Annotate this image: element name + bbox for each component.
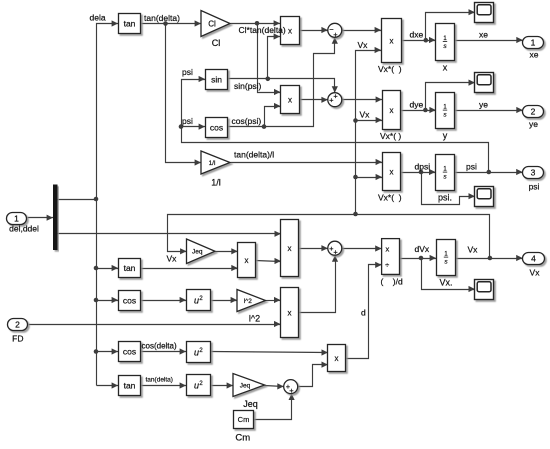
- gain Jeq mid: [187, 239, 216, 264]
- output port 3 psi: [523, 167, 544, 192]
- svg-text:sin(psi): sin(psi): [234, 81, 262, 91]
- wire dye to scope2: [426, 80, 475, 111]
- wire sum4 to product H: [298, 362, 328, 387]
- product A (Cl*tan x): [281, 17, 300, 45]
- sum4 (plus plus): [284, 380, 298, 396]
- integrator x: [436, 24, 455, 73]
- svg-text:tan: tan: [124, 19, 136, 29]
- svg-text:ye: ye: [529, 119, 538, 129]
- svg-text:Jeq: Jeq: [243, 399, 258, 409]
- wire tan(delta): [141, 20, 202, 26]
- svg-text:tan: tan: [124, 263, 136, 273]
- svg-text:y: y: [443, 131, 448, 141]
- wire net dVx: [400, 255, 437, 261]
- svg-text:ye: ye: [479, 100, 488, 110]
- svg-text:3: 3: [531, 168, 536, 178]
- trigonometric function sin: [206, 70, 228, 90]
- product J (Jeq tan): [238, 243, 256, 278]
- svg-text:cos: cos: [210, 123, 223, 133]
- wire sin(psi) branch to product A: [268, 33, 281, 78]
- svg-text:x: x: [288, 244, 292, 253]
- svg-text:x: x: [390, 106, 394, 115]
- svg-text:del,ddel: del,ddel: [9, 224, 39, 234]
- scope Vx: [475, 280, 494, 300]
- input port 2 FD: [8, 319, 28, 344]
- svg-text:u: u: [194, 296, 199, 306]
- output port 4 Vx: [523, 253, 545, 278]
- gain Cl: [201, 11, 230, 49]
- wire input1 to demux: [28, 215, 54, 221]
- svg-text:l^2: l^2: [249, 314, 260, 324]
- gain 1/l: [201, 151, 230, 188]
- wire u2a to l2: [211, 297, 238, 303]
- gain l^2: [237, 290, 266, 324]
- scope xe: [475, 3, 494, 23]
- svg-text:Cl: Cl: [212, 38, 221, 48]
- input port 1 del,ddel: [7, 213, 39, 234]
- trigonometric function cos2: [119, 342, 141, 362]
- wire Vx to product D: [356, 117, 383, 123]
- wire Jeq to product J: [216, 248, 238, 254]
- svg-text:psi: psi: [182, 67, 193, 77]
- wire dpsi to scope3: [422, 173, 475, 205]
- wire net dpsi: [400, 169, 436, 175]
- constant Cm: [234, 411, 254, 429]
- svg-text:x: x: [288, 26, 292, 35]
- svg-text:Vx*( ): Vx*( ): [378, 193, 402, 203]
- svg-text:dela: dela: [90, 13, 106, 23]
- svg-text:cos: cos: [123, 296, 136, 306]
- wire dVx to scope4: [422, 259, 475, 293]
- svg-text:+: +: [333, 91, 338, 100]
- integrator y: [436, 93, 455, 141]
- svg-text:FD: FD: [12, 334, 23, 344]
- svg-text:+: +: [289, 386, 294, 395]
- wire Jeq2 to sum4: [265, 383, 284, 389]
- demux bar: [53, 185, 58, 251]
- svg-text:Vx: Vx: [468, 245, 479, 255]
- svg-text:x: x: [443, 63, 448, 73]
- svg-text:tan(delta)/l: tan(delta)/l: [234, 150, 274, 160]
- wire tan(delta)/l: [231, 159, 383, 165]
- svg-text:cos(psi): cos(psi): [232, 116, 262, 126]
- wire cos(delta)^2 to product H: [211, 349, 328, 355]
- wire Cl*tan branch to product B: [258, 24, 281, 96]
- product E Vx*( ) psi: [383, 153, 401, 191]
- svg-text:2: 2: [15, 320, 20, 330]
- svg-text:Vx: Vx: [167, 254, 178, 264]
- wire sum3 to divide: [342, 245, 382, 251]
- svg-text:Vx.: Vx.: [439, 278, 452, 288]
- trigonometric function tan: [119, 14, 141, 34]
- trigonometric function cos1: [119, 291, 141, 311]
- wire cos2 to u2b: [141, 348, 187, 354]
- svg-text:xe: xe: [479, 30, 488, 40]
- svg-text:psi.: psi.: [438, 193, 452, 203]
- gain Jeq2: [233, 374, 265, 410]
- wire net del vertical: [94, 20, 119, 385]
- svg-text:1/l: 1/l: [211, 178, 221, 188]
- integrator psi: [436, 155, 455, 203]
- wire net FD: [29, 321, 281, 327]
- svg-text:+: +: [333, 247, 338, 256]
- wire product A to sum1: [300, 27, 328, 33]
- sum3 (plus plus): [328, 241, 342, 256]
- svg-text:sin: sin: [211, 75, 222, 85]
- svg-text:Vx: Vx: [530, 268, 541, 278]
- svg-text:psi: psi: [466, 162, 477, 172]
- trigonometric function cos: [206, 118, 228, 138]
- svg-text:4: 4: [531, 254, 536, 264]
- svg-text:dpsi: dpsi: [415, 162, 431, 172]
- output port 2 ye: [523, 106, 544, 130]
- svg-text:x: x: [335, 354, 339, 363]
- sum2 (plus plus): [328, 91, 342, 106]
- wire Vx to product E: [356, 174, 383, 180]
- svg-text:tan(delta): tan(delta): [144, 13, 180, 23]
- wire tan2 to u2c: [141, 382, 187, 388]
- svg-text:dxe: dxe: [410, 30, 424, 40]
- svg-text:cos(delta): cos(delta): [142, 342, 177, 351]
- trigonometric function tan2: [119, 376, 141, 396]
- scope ye: [475, 73, 494, 93]
- wire u2c to Jeq2: [211, 382, 234, 388]
- svg-text:x: x: [390, 36, 394, 45]
- svg-text:x: x: [386, 245, 390, 254]
- wire dxe to scope1: [426, 9, 475, 40]
- svg-text:psi: psi: [182, 116, 193, 126]
- wire product J to product F: [256, 258, 281, 264]
- svg-text:tan(delta): tan(delta): [146, 377, 173, 384]
- divide block ( )/d: [382, 239, 400, 275]
- wire tan mid to product J: [141, 265, 238, 271]
- product D Vx*( ) ye: [383, 91, 401, 130]
- svg-text:xe: xe: [530, 50, 539, 60]
- product B (sin cos x): [281, 86, 300, 114]
- svg-text:Cl: Cl: [208, 19, 216, 28]
- svg-text:u: u: [194, 381, 199, 391]
- svg-text:tan: tan: [124, 381, 136, 391]
- svg-text:Vx*( ): Vx*( ): [378, 64, 402, 74]
- svg-text:dye: dye: [410, 100, 424, 110]
- wire net del trunk: [58, 199, 97, 201]
- wire tan(delta) to 1/l: [166, 24, 202, 166]
- wire ye to out2: [455, 107, 523, 113]
- wire psi feedback to cos: [182, 124, 206, 130]
- wire del to tan mid: [97, 265, 119, 271]
- wire sin(psi): [228, 77, 338, 93]
- svg-text:dVx: dVx: [415, 244, 430, 254]
- wire net dxe: [401, 37, 436, 43]
- wire psi to out3: [455, 169, 523, 175]
- wire del to tan2: [97, 382, 119, 388]
- trigonometric function tan mid: [119, 259, 141, 278]
- product G (l^2 FD): [281, 288, 299, 338]
- svg-text:1: 1: [14, 214, 19, 224]
- product H (cos^2 sum4): [328, 345, 346, 372]
- svg-text:l^2: l^2: [244, 298, 252, 305]
- wire Cm to sum4: [253, 394, 295, 420]
- svg-text:x: x: [245, 256, 249, 265]
- svg-text:Cm: Cm: [238, 415, 250, 424]
- product F (ddel): [281, 220, 299, 277]
- wire Cl*tan(delta): [231, 20, 281, 26]
- math function u^2 a: [187, 290, 211, 311]
- integrator Vx: [437, 240, 456, 288]
- wire psi feedback: [179, 76, 489, 173]
- wire net d: [346, 262, 382, 359]
- sum1 (minus plus): [328, 23, 342, 39]
- svg-text:x: x: [390, 167, 394, 176]
- svg-text:Jeq: Jeq: [192, 249, 203, 256]
- svg-text:cos: cos: [123, 347, 136, 357]
- wire cos(psi) branch to product B: [265, 103, 281, 127]
- wire del to cos1: [97, 297, 119, 303]
- wire del to cos2: [97, 348, 119, 354]
- wire net dye: [401, 107, 436, 113]
- svg-text:x: x: [288, 95, 292, 104]
- wire cos(psi): [228, 37, 338, 129]
- scope psi: [475, 187, 494, 207]
- math function u^2 c: [187, 375, 211, 396]
- svg-text:Cm: Cm: [235, 433, 250, 444]
- svg-text:1/l: 1/l: [209, 160, 216, 167]
- product C Vx*( ) xe: [382, 19, 402, 63]
- svg-text:+: +: [333, 30, 338, 39]
- svg-text:Vx*( ): Vx*( ): [380, 131, 401, 141]
- svg-text:2: 2: [531, 107, 536, 117]
- svg-text:1: 1: [531, 38, 536, 48]
- math function u^2 b: [187, 342, 211, 363]
- wire sum2 to product D: [342, 96, 383, 102]
- svg-text:d: d: [361, 308, 366, 318]
- wire Vx feedback: [168, 212, 490, 259]
- svg-text:Vx: Vx: [360, 110, 371, 120]
- wire Vx to out4: [456, 255, 523, 261]
- svg-text:x: x: [288, 308, 292, 317]
- svg-text:Cl*tan(delta): Cl*tan(delta): [239, 25, 286, 35]
- output port 1 xe: [523, 37, 544, 60]
- wire product G to sum3: [299, 255, 339, 312]
- wire product B to sum2: [300, 97, 328, 103]
- wire product F to sum3: [299, 245, 328, 251]
- wire sum1 to product C: [342, 27, 382, 33]
- svg-text:Vx: Vx: [358, 40, 369, 50]
- wire l2 to product G: [266, 297, 281, 303]
- svg-text:psi: psi: [529, 182, 540, 192]
- wire net Vx vertical: [353, 47, 381, 215]
- svg-text:÷: ÷: [385, 261, 389, 270]
- wire cos1 to u2a: [141, 297, 187, 303]
- wire xe to out1: [455, 37, 523, 43]
- wire net ddel: [58, 231, 281, 237]
- svg-text:u: u: [194, 348, 199, 358]
- svg-text:Jeq: Jeq: [240, 382, 251, 389]
- svg-text:( )/d: ( )/d: [381, 277, 403, 287]
